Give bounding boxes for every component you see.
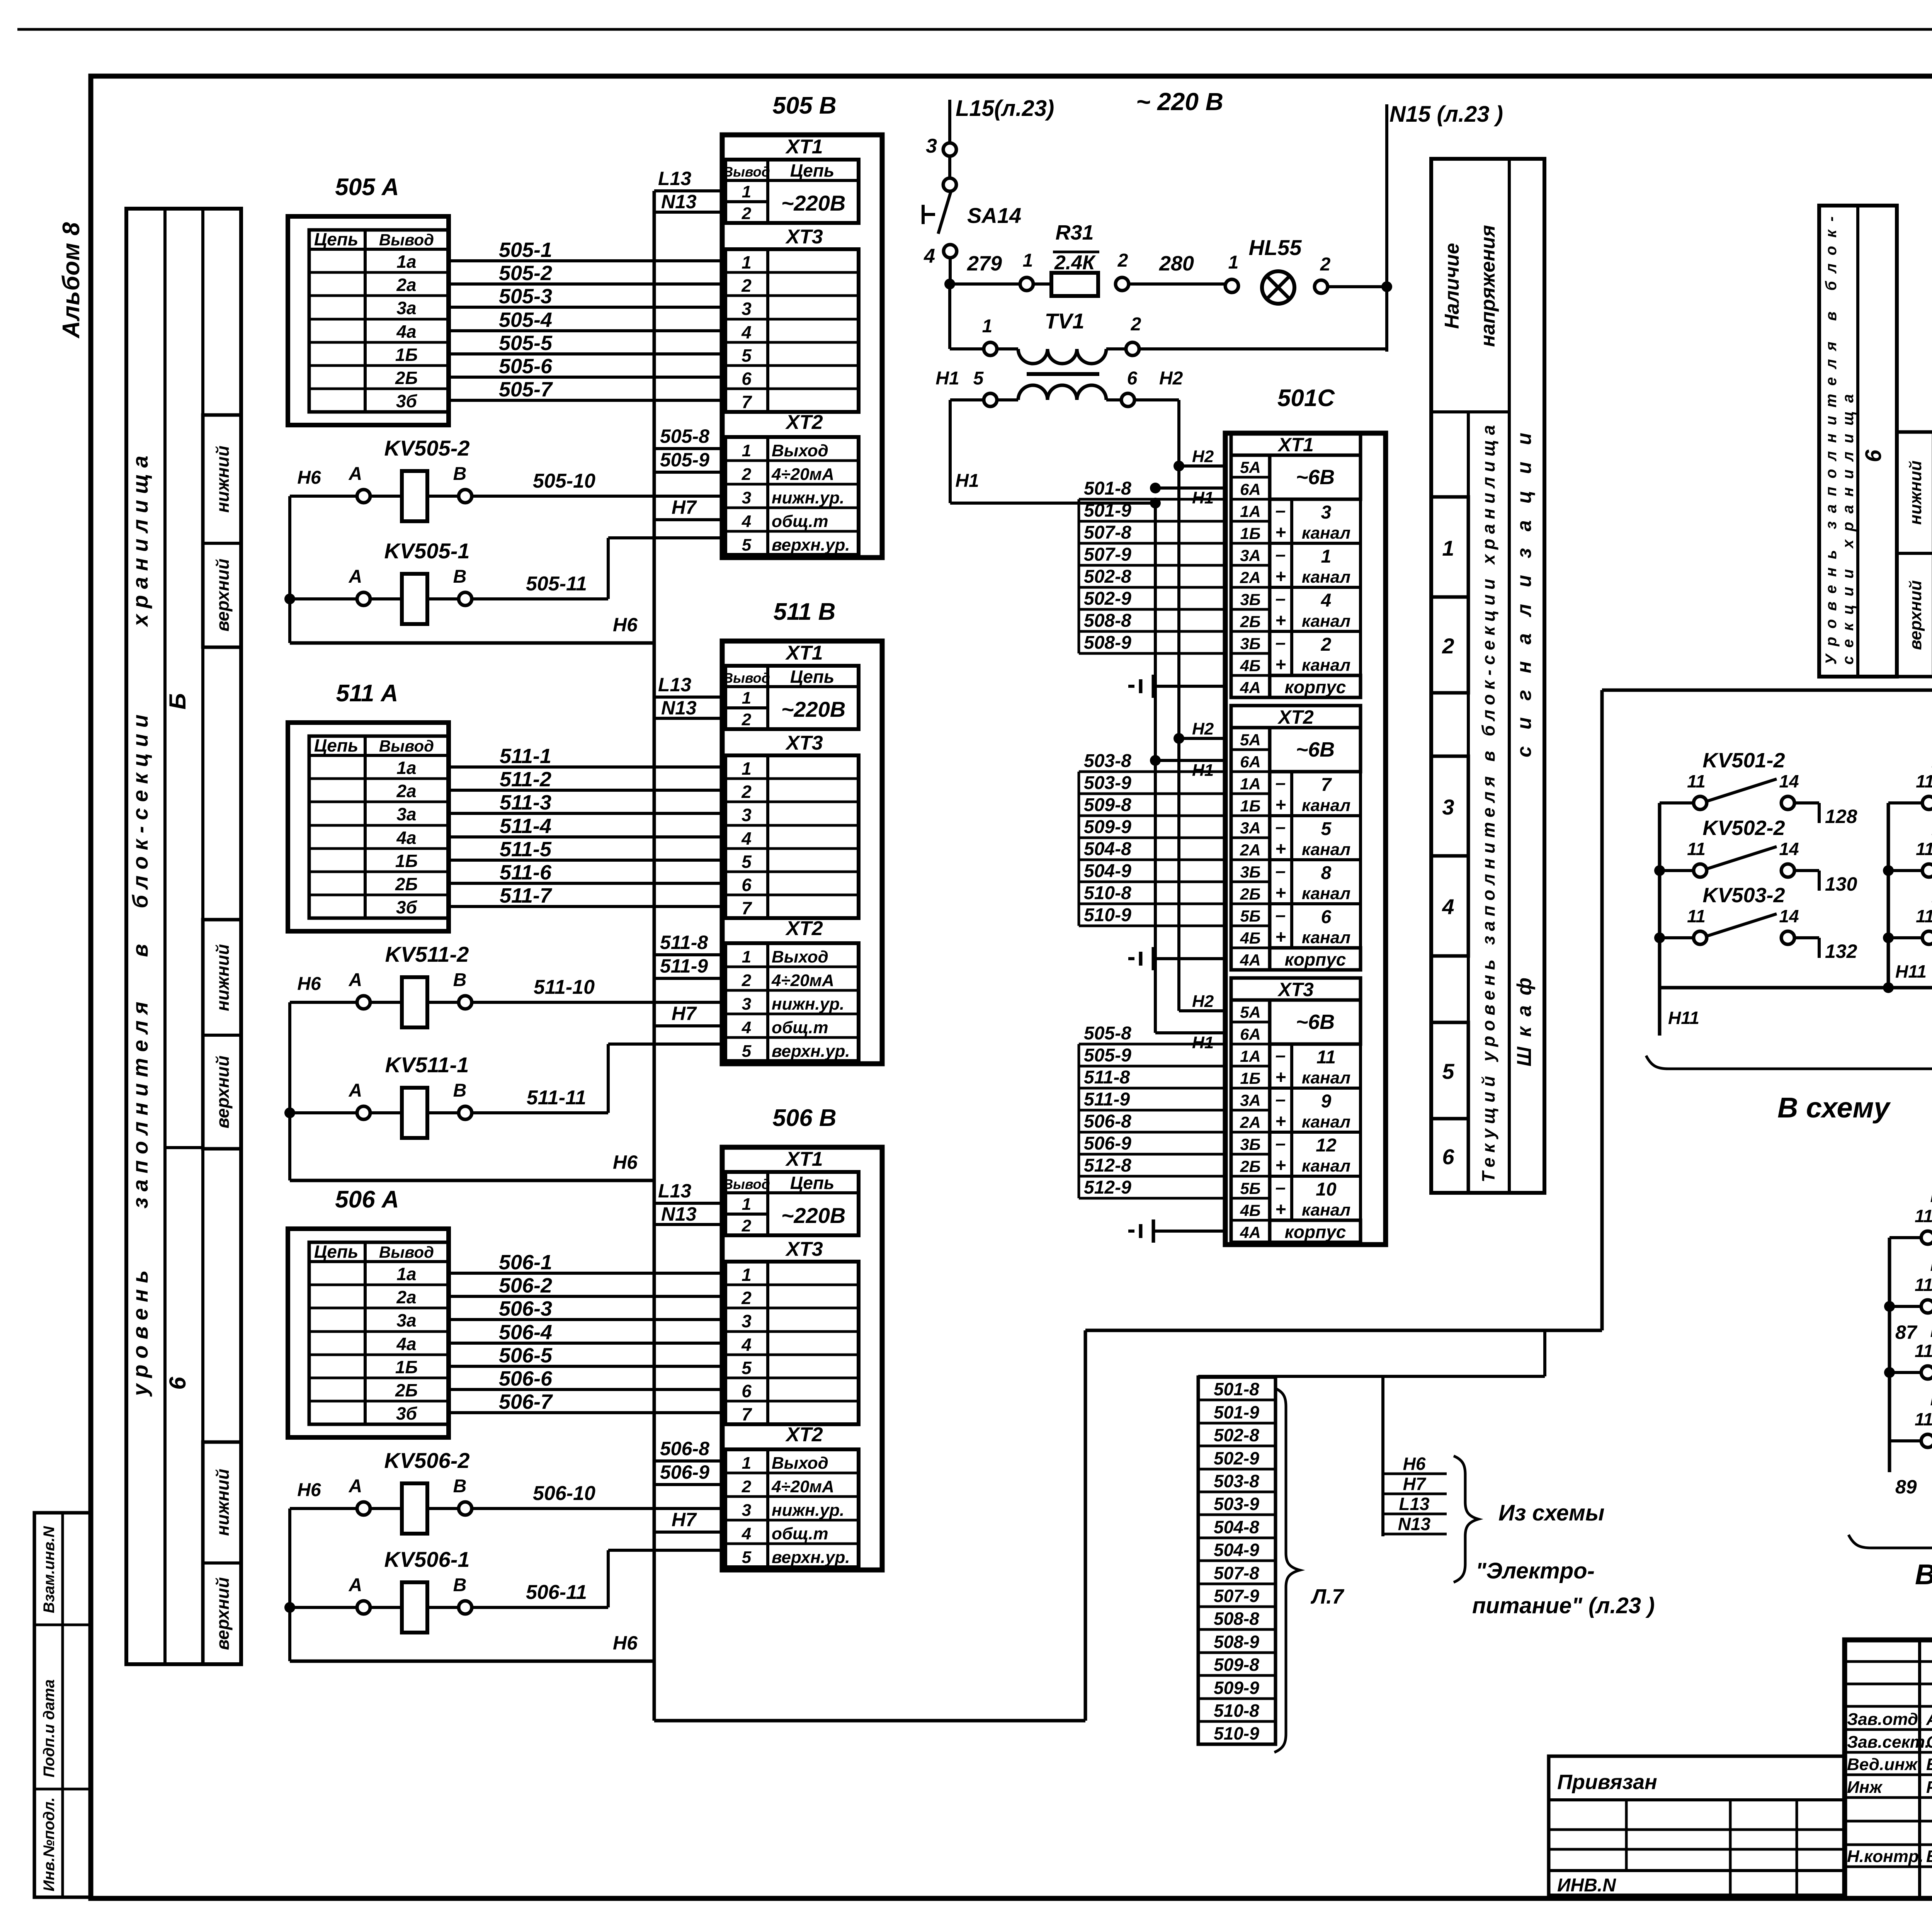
svg-text:Рыбалка: Рыбалка bbox=[1926, 1778, 1932, 1797]
svg-text:2А: 2А bbox=[1240, 841, 1261, 859]
svg-text:Вывод: Вывод bbox=[723, 670, 770, 686]
svg-text:6: 6 bbox=[742, 1381, 752, 1401]
svg-text:512-9: 512-9 bbox=[1084, 1177, 1131, 1198]
svg-text:ИНВ.N: ИНВ.N bbox=[1557, 1875, 1616, 1896]
svg-text:505-7: 505-7 bbox=[499, 378, 553, 401]
svg-text:L13: L13 bbox=[1399, 1494, 1430, 1514]
svg-text:Н6: Н6 bbox=[297, 974, 321, 994]
svg-text:~6В: ~6В bbox=[1296, 1010, 1335, 1034]
svg-text:Боляева: Боляева bbox=[1926, 1847, 1932, 1866]
svg-text:508-9: 508-9 bbox=[1084, 633, 1131, 653]
svg-text:Вывод: Вывод bbox=[723, 164, 770, 180]
svg-text:з а п о л н и т е л я: з а п о л н и т е л я bbox=[128, 1002, 152, 1208]
svg-text:511-9: 511-9 bbox=[1084, 1089, 1130, 1110]
svg-text:5А: 5А bbox=[1240, 458, 1261, 476]
svg-text:506-9: 506-9 bbox=[660, 1461, 709, 1483]
svg-text:~ 220 В: ~ 220 В bbox=[1136, 88, 1223, 116]
svg-text:KV506-1: KV506-1 bbox=[384, 1547, 469, 1571]
svg-text:10: 10 bbox=[1316, 1179, 1337, 1200]
svg-text:511-8: 511-8 bbox=[1084, 1067, 1130, 1088]
svg-text:1a: 1a bbox=[396, 758, 416, 778]
svg-text:нижн.ур.: нижн.ур. bbox=[772, 995, 844, 1014]
svg-text:510-9: 510-9 bbox=[1084, 905, 1131, 925]
svg-text:6: 6 bbox=[1442, 1145, 1454, 1169]
svg-text:1: 1 bbox=[742, 1195, 751, 1214]
svg-text:503-8: 503-8 bbox=[1084, 751, 1131, 771]
svg-text:2: 2 bbox=[742, 1216, 752, 1235]
svg-text:501-9: 501-9 bbox=[1214, 1402, 1259, 1422]
svg-text:канал: канал bbox=[1302, 884, 1350, 903]
svg-text:2a: 2a bbox=[396, 781, 416, 801]
svg-text:3: 3 bbox=[742, 299, 752, 319]
svg-text:6: 6 bbox=[1861, 449, 1886, 462]
svg-text:4: 4 bbox=[742, 1018, 751, 1037]
svg-text:3б: 3б bbox=[396, 391, 418, 411]
svg-text:+: + bbox=[1275, 795, 1286, 815]
svg-text:11: 11 bbox=[1687, 906, 1706, 926]
svg-text:7: 7 bbox=[742, 1404, 752, 1424]
svg-text:4А: 4А bbox=[1240, 679, 1261, 697]
svg-text:ХТ3: ХТ3 bbox=[785, 732, 823, 754]
svg-text:Альбом 8: Альбом 8 bbox=[58, 222, 85, 339]
svg-text:3: 3 bbox=[1442, 795, 1454, 819]
svg-text:TV1: TV1 bbox=[1045, 309, 1085, 333]
svg-text:4: 4 bbox=[1442, 895, 1454, 919]
svg-text:506-8: 506-8 bbox=[660, 1438, 709, 1459]
svg-text:11: 11 bbox=[1915, 1206, 1932, 1226]
svg-text:14: 14 bbox=[1779, 906, 1799, 926]
svg-text:2А: 2А bbox=[1240, 1113, 1261, 1131]
svg-text:506-10: 506-10 bbox=[533, 1482, 595, 1505]
svg-text:L13: L13 bbox=[658, 168, 691, 189]
svg-text:А: А bbox=[349, 1476, 362, 1497]
svg-text:В схему: В схему bbox=[1777, 1092, 1891, 1124]
svg-text:–: – bbox=[1276, 1177, 1286, 1198]
svg-text:509-8: 509-8 bbox=[1084, 795, 1131, 815]
svg-text:ХТ1: ХТ1 bbox=[785, 642, 823, 664]
svg-text:Зав.отд.: Зав.отд. bbox=[1847, 1710, 1923, 1729]
svg-text:Н1: Н1 bbox=[935, 368, 959, 389]
svg-text:3А: 3А bbox=[1240, 1091, 1261, 1109]
svg-text:5: 5 bbox=[742, 1358, 752, 1378]
svg-text:верхний: верхний bbox=[213, 1056, 233, 1129]
svg-text:L13: L13 bbox=[658, 1180, 691, 1202]
svg-text:4А: 4А bbox=[1240, 1223, 1261, 1242]
svg-text:1А: 1А bbox=[1240, 502, 1261, 520]
svg-text:506 А: 506 А bbox=[335, 1186, 399, 1213]
svg-text:–: – bbox=[1276, 1089, 1286, 1110]
svg-text:Н7: Н7 bbox=[672, 1509, 697, 1531]
svg-text:+: + bbox=[1275, 1067, 1286, 1088]
svg-text:503-9: 503-9 bbox=[1084, 773, 1131, 793]
svg-text:3б: 3б bbox=[396, 1403, 418, 1423]
svg-text:509-9: 509-9 bbox=[1214, 1678, 1259, 1698]
svg-text:2Б: 2Б bbox=[1240, 1157, 1260, 1175]
svg-text:14: 14 bbox=[1779, 771, 1799, 791]
svg-text:N13: N13 bbox=[661, 697, 697, 719]
svg-text:3a: 3a bbox=[396, 804, 416, 824]
svg-text:Цепь: Цепь bbox=[314, 735, 359, 755]
svg-text:~6В: ~6В bbox=[1296, 738, 1335, 761]
svg-text:2: 2 bbox=[742, 971, 752, 990]
svg-text:3б: 3б bbox=[396, 897, 418, 917]
svg-text:501С: 501С bbox=[1277, 385, 1335, 412]
svg-text:KV505-2: KV505-2 bbox=[384, 436, 469, 460]
svg-text:N13: N13 bbox=[661, 191, 697, 213]
svg-text:нижний: нижний bbox=[213, 944, 233, 1011]
svg-text:1: 1 bbox=[742, 182, 751, 201]
svg-text:б л о к - с е к ц и и: б л о к - с е к ц и и bbox=[128, 714, 152, 908]
svg-text:~6В: ~6В bbox=[1296, 466, 1335, 489]
svg-text:1Б: 1Б bbox=[1240, 1069, 1260, 1087]
svg-text:в: в bbox=[128, 944, 152, 957]
svg-text:канал: канал bbox=[1302, 1068, 1350, 1087]
svg-text:Выход: Выход bbox=[772, 441, 828, 460]
svg-text:1: 1 bbox=[1023, 250, 1033, 271]
svg-text:Н6: Н6 bbox=[613, 1151, 638, 1173]
svg-text:4: 4 bbox=[742, 1524, 751, 1543]
svg-text:4: 4 bbox=[741, 828, 752, 849]
svg-text:1: 1 bbox=[742, 1454, 751, 1473]
svg-text:1: 1 bbox=[1442, 536, 1454, 560]
svg-text:KV511-2: KV511-2 bbox=[385, 942, 469, 966]
svg-text:Н11: Н11 bbox=[1668, 1008, 1699, 1028]
svg-text:506-7: 506-7 bbox=[499, 1390, 553, 1413]
svg-text:+: + bbox=[1275, 611, 1286, 631]
svg-text:5: 5 bbox=[742, 1042, 752, 1061]
svg-text:7: 7 bbox=[742, 392, 752, 412]
svg-text:502-9: 502-9 bbox=[1084, 588, 1131, 609]
svg-text:512-8: 512-8 bbox=[1084, 1155, 1131, 1176]
svg-text:Наличие: Наличие bbox=[1441, 243, 1463, 329]
svg-text:канал: канал bbox=[1302, 1112, 1350, 1131]
svg-text:511 В: 511 В bbox=[774, 599, 836, 625]
svg-text:1: 1 bbox=[742, 689, 751, 707]
svg-text:6: 6 bbox=[1127, 368, 1138, 389]
svg-text:3: 3 bbox=[742, 1501, 751, 1520]
svg-text:511-10: 511-10 bbox=[534, 976, 595, 998]
svg-text:нижн.ур.: нижн.ур. bbox=[772, 488, 844, 507]
svg-text:В: В bbox=[453, 1080, 467, 1101]
svg-text:7: 7 bbox=[1321, 775, 1332, 795]
svg-text:505-9: 505-9 bbox=[1084, 1045, 1131, 1066]
svg-text:1Б: 1Б bbox=[395, 345, 418, 365]
svg-text:А: А bbox=[349, 1575, 362, 1595]
svg-text:L15(л.23): L15(л.23) bbox=[956, 96, 1054, 121]
svg-text:–: – bbox=[1276, 1133, 1286, 1154]
svg-text:11: 11 bbox=[1915, 1275, 1932, 1295]
svg-text:Н2: Н2 bbox=[1192, 719, 1214, 738]
svg-text:9: 9 bbox=[1321, 1091, 1332, 1112]
svg-text:5А: 5А bbox=[1240, 731, 1261, 749]
svg-text:505-10: 505-10 bbox=[533, 470, 595, 492]
svg-text:2: 2 bbox=[742, 204, 752, 223]
svg-text:4a: 4a bbox=[396, 828, 416, 848]
svg-text:506-6: 506-6 bbox=[499, 1367, 553, 1390]
svg-text:501-8: 501-8 bbox=[1214, 1379, 1259, 1399]
svg-text:511-6: 511-6 bbox=[500, 861, 552, 884]
svg-text:3: 3 bbox=[1321, 502, 1332, 523]
svg-text:"Электро-: "Электро- bbox=[1476, 1558, 1595, 1583]
svg-text:132: 132 bbox=[1825, 940, 1857, 962]
svg-text:канал: канал bbox=[1302, 568, 1350, 587]
svg-text:511-1: 511-1 bbox=[500, 745, 551, 768]
svg-text:1: 1 bbox=[742, 252, 752, 272]
svg-text:2: 2 bbox=[1320, 254, 1331, 275]
svg-text:1А: 1А bbox=[1240, 1047, 1261, 1065]
svg-text:506-8: 506-8 bbox=[1084, 1111, 1131, 1132]
svg-text:ХТ2: ХТ2 bbox=[785, 411, 823, 434]
svg-text:KV501-1: KV501-1 bbox=[1930, 1184, 1932, 1207]
svg-text:Привязан: Привязан bbox=[1557, 1770, 1657, 1794]
svg-text:N13: N13 bbox=[661, 1203, 697, 1225]
svg-text:6: 6 bbox=[1321, 907, 1332, 927]
svg-text:нижний: нижний bbox=[213, 1469, 233, 1536]
svg-text:Вед.инж: Вед.инж bbox=[1847, 1755, 1918, 1774]
svg-text:Выход: Выход bbox=[772, 1454, 828, 1473]
svg-text:505 В: 505 В bbox=[772, 92, 836, 119]
svg-text:В: В bbox=[453, 566, 467, 587]
svg-text:4А: 4А bbox=[1240, 951, 1261, 969]
svg-text:6А: 6А bbox=[1240, 1025, 1261, 1043]
svg-text:6А: 6А bbox=[1240, 480, 1261, 498]
svg-text:Н7: Н7 bbox=[1403, 1474, 1427, 1494]
svg-text:511-3: 511-3 bbox=[500, 791, 551, 814]
svg-text:505-9: 505-9 bbox=[660, 449, 709, 471]
svg-text:87: 87 bbox=[1895, 1321, 1918, 1343]
svg-text:R31: R31 bbox=[1055, 221, 1094, 244]
svg-text:корпус: корпус bbox=[1285, 677, 1346, 697]
svg-text:506-11: 506-11 bbox=[526, 1581, 587, 1604]
svg-text:2Б: 2Б bbox=[395, 874, 418, 894]
svg-text:А: А bbox=[349, 970, 362, 990]
svg-text:KV508-1: KV508-1 bbox=[1930, 1387, 1932, 1410]
svg-text:2: 2 bbox=[741, 1288, 752, 1308]
svg-text:~220В: ~220В bbox=[781, 1203, 846, 1228]
svg-text:505-4: 505-4 bbox=[499, 308, 552, 332]
svg-text:Вывод: Вывод bbox=[379, 1243, 434, 1261]
svg-text:ХТ1: ХТ1 bbox=[1277, 434, 1314, 456]
svg-text:~220В: ~220В bbox=[781, 697, 846, 721]
svg-text:508-8: 508-8 bbox=[1214, 1609, 1259, 1629]
svg-text:KV506-2: KV506-2 bbox=[384, 1448, 469, 1473]
svg-text:507-9: 507-9 bbox=[1084, 544, 1131, 565]
svg-text:Цепь: Цепь bbox=[790, 160, 835, 180]
svg-text:5: 5 bbox=[742, 536, 752, 554]
svg-text:+: + bbox=[1275, 1199, 1286, 1220]
svg-text:506-1: 506-1 bbox=[499, 1251, 552, 1274]
svg-text:12: 12 bbox=[1316, 1135, 1337, 1156]
svg-text:5: 5 bbox=[973, 368, 984, 389]
svg-text:5А: 5А bbox=[1240, 1003, 1261, 1021]
svg-text:4: 4 bbox=[1321, 590, 1332, 611]
svg-text:N15 (л.23 ): N15 (л.23 ) bbox=[1389, 102, 1503, 127]
svg-text:506-3: 506-3 bbox=[499, 1297, 552, 1320]
svg-text:505-8: 505-8 bbox=[660, 425, 709, 447]
svg-text:4: 4 bbox=[923, 245, 935, 267]
svg-text:Н7: Н7 bbox=[672, 1003, 697, 1024]
svg-text:нижний: нижний bbox=[213, 446, 233, 513]
svg-text:канал: канал bbox=[1302, 612, 1350, 631]
svg-text:504-9: 504-9 bbox=[1214, 1540, 1259, 1560]
svg-text:505 А: 505 А bbox=[335, 174, 399, 201]
svg-text:505-11: 505-11 bbox=[526, 573, 587, 595]
svg-text:7: 7 bbox=[742, 898, 752, 918]
svg-text:+: + bbox=[1275, 522, 1286, 543]
svg-text:11: 11 bbox=[1316, 1047, 1336, 1068]
svg-text:Боляева: Боляева bbox=[1926, 1755, 1932, 1774]
svg-text:Английский: Английский bbox=[1926, 1710, 1932, 1729]
svg-text:–: – bbox=[1276, 544, 1286, 565]
svg-text:Н6: Н6 bbox=[297, 1480, 321, 1500]
svg-text:верхний: верхний bbox=[213, 1577, 233, 1650]
svg-text:279: 279 bbox=[967, 252, 1002, 275]
svg-text:3: 3 bbox=[742, 995, 751, 1014]
svg-text:6: 6 bbox=[742, 875, 752, 895]
svg-text:6А: 6А bbox=[1240, 753, 1261, 771]
svg-text:В: В bbox=[453, 464, 467, 484]
svg-text:Подп.и дата: Подп.и дата bbox=[41, 1679, 58, 1777]
svg-text:KV501-2: KV501-2 bbox=[1702, 749, 1785, 772]
svg-text:KV511-1: KV511-1 bbox=[385, 1053, 469, 1077]
svg-text:В: В bbox=[453, 1575, 467, 1595]
svg-text:511-2: 511-2 bbox=[500, 768, 551, 791]
svg-text:3: 3 bbox=[742, 1311, 752, 1331]
svg-text:501-8: 501-8 bbox=[1084, 478, 1131, 499]
svg-text:Н.контр.: Н.контр. bbox=[1847, 1847, 1923, 1866]
svg-text:506-5: 506-5 bbox=[499, 1344, 553, 1367]
svg-text:х р а н и л и щ а: х р а н и л и щ а bbox=[128, 456, 152, 628]
svg-text:505-2: 505-2 bbox=[499, 262, 552, 285]
svg-text:11: 11 bbox=[1916, 771, 1932, 791]
svg-text:11: 11 bbox=[1687, 839, 1706, 859]
svg-text:3А: 3А bbox=[1240, 819, 1261, 837]
svg-text:+: + bbox=[1275, 883, 1286, 903]
svg-text:Цепь: Цепь bbox=[314, 1242, 359, 1262]
svg-text:1: 1 bbox=[742, 1265, 752, 1285]
svg-text:KV503-2: KV503-2 bbox=[1702, 884, 1785, 907]
svg-text:1: 1 bbox=[742, 441, 751, 460]
svg-text:Н6: Н6 bbox=[1403, 1454, 1426, 1474]
svg-text:2a: 2a bbox=[396, 1287, 416, 1307]
svg-text:нижний: нижний bbox=[1906, 461, 1925, 525]
svg-text:11: 11 bbox=[1916, 839, 1932, 859]
svg-text:1: 1 bbox=[742, 759, 752, 779]
svg-text:280: 280 bbox=[1159, 252, 1194, 275]
svg-text:502-9: 502-9 bbox=[1214, 1448, 1259, 1468]
svg-text:ХТ2: ХТ2 bbox=[1277, 706, 1314, 728]
svg-text:ХТ1: ХТ1 bbox=[785, 1148, 823, 1170]
svg-text:–: – bbox=[1276, 633, 1286, 653]
svg-text:1a: 1a bbox=[396, 1264, 416, 1284]
svg-text:Л.7: Л.7 bbox=[1310, 1585, 1345, 1608]
svg-text:510-9: 510-9 bbox=[1214, 1723, 1259, 1743]
svg-text:5: 5 bbox=[1442, 1059, 1454, 1083]
svg-text:ХТ3: ХТ3 bbox=[785, 1238, 823, 1260]
svg-text:верхн.ур.: верхн.ур. bbox=[772, 1548, 850, 1567]
svg-text:корпус: корпус bbox=[1285, 1222, 1346, 1242]
svg-text:2: 2 bbox=[1442, 634, 1454, 658]
svg-text:2.4К: 2.4К bbox=[1054, 252, 1096, 274]
svg-text:ХТ1: ХТ1 bbox=[785, 136, 823, 158]
svg-text:2Б: 2Б bbox=[1240, 612, 1260, 631]
svg-text:4: 4 bbox=[741, 322, 752, 342]
svg-text:2: 2 bbox=[742, 465, 752, 484]
svg-text:–: – bbox=[1276, 861, 1286, 881]
svg-text:3a: 3a bbox=[396, 298, 416, 318]
svg-text:канал: канал bbox=[1302, 928, 1350, 947]
svg-text:Выход: Выход bbox=[772, 947, 828, 966]
svg-text:4÷20мА: 4÷20мА bbox=[771, 1477, 834, 1496]
svg-text:Инв.№подл.: Инв.№подл. bbox=[41, 1797, 58, 1891]
svg-text:4Б: 4Б bbox=[1240, 929, 1260, 947]
svg-text:1: 1 bbox=[742, 947, 751, 966]
svg-text:канал: канал bbox=[1302, 840, 1350, 859]
svg-text:1Б: 1Б bbox=[395, 1357, 418, 1377]
svg-text:3Б: 3Б bbox=[1240, 590, 1260, 609]
svg-text:1Б: 1Б bbox=[1240, 524, 1260, 543]
svg-text:3a: 3a bbox=[396, 1310, 416, 1330]
svg-text:Цепь: Цепь bbox=[314, 229, 359, 249]
svg-text:Вывод: Вывод bbox=[379, 231, 434, 249]
svg-text:11: 11 bbox=[1916, 906, 1932, 926]
svg-text:ХТ2: ХТ2 bbox=[785, 1423, 823, 1446]
svg-text:+: + bbox=[1275, 566, 1286, 587]
svg-text:2Б: 2Б bbox=[1240, 885, 1260, 903]
svg-text:KV502-1: KV502-1 bbox=[1930, 1318, 1932, 1342]
svg-text:+: + bbox=[1275, 927, 1286, 947]
svg-text:верхн.ур.: верхн.ур. bbox=[772, 536, 850, 554]
svg-text:2: 2 bbox=[742, 1477, 752, 1496]
svg-text:верхн.ур.: верхн.ур. bbox=[772, 1042, 850, 1061]
svg-text:Н1: Н1 bbox=[1192, 488, 1214, 507]
svg-text:507-8: 507-8 bbox=[1214, 1563, 1259, 1583]
svg-text:Н1: Н1 bbox=[955, 471, 979, 491]
svg-text:2: 2 bbox=[1321, 634, 1332, 655]
svg-text:секции хранилища: секции хранилища bbox=[1840, 394, 1857, 665]
svg-text:506-9: 506-9 bbox=[1084, 1133, 1131, 1154]
svg-text:Н7: Н7 bbox=[672, 497, 697, 518]
svg-text:+: + bbox=[1275, 655, 1286, 675]
svg-text:Вывод: Вывод bbox=[723, 1176, 770, 1192]
svg-text:511-5: 511-5 bbox=[500, 838, 552, 861]
svg-text:А: А bbox=[349, 1080, 362, 1101]
svg-text:KV505-1: KV505-1 bbox=[384, 539, 469, 563]
svg-text:~220В: ~220В bbox=[781, 191, 846, 215]
svg-text:Из схемы: Из схемы bbox=[1498, 1500, 1604, 1526]
svg-text:511-7: 511-7 bbox=[500, 884, 553, 907]
svg-text:3: 3 bbox=[742, 488, 751, 507]
svg-text:504-8: 504-8 bbox=[1084, 839, 1131, 859]
svg-text:4Б: 4Б bbox=[1240, 1201, 1260, 1219]
svg-text:2: 2 bbox=[1117, 250, 1128, 271]
svg-text:–: – bbox=[1276, 588, 1286, 609]
svg-text:505-3: 505-3 bbox=[499, 285, 552, 308]
svg-text:Самохин: Самохин bbox=[1926, 1733, 1932, 1752]
svg-text:3: 3 bbox=[926, 135, 937, 157]
svg-text:3А: 3А bbox=[1240, 546, 1261, 565]
svg-text:511-8: 511-8 bbox=[660, 932, 708, 953]
svg-text:А: А bbox=[349, 566, 362, 587]
svg-text:11: 11 bbox=[1687, 771, 1706, 791]
svg-text:4÷20мА: 4÷20мА bbox=[771, 971, 834, 990]
svg-text:1: 1 bbox=[982, 316, 993, 337]
svg-text:Цепь: Цепь bbox=[790, 1173, 835, 1193]
svg-text:4Б: 4Б bbox=[1240, 656, 1260, 675]
svg-text:общ.т: общ.т bbox=[772, 1524, 828, 1543]
svg-text:5: 5 bbox=[742, 852, 752, 872]
svg-text:–: – bbox=[1276, 817, 1286, 837]
